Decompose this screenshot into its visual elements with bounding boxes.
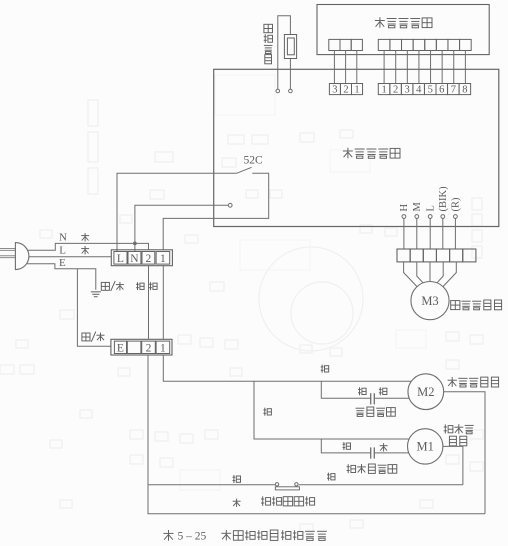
wire: terminal 1 down, red run to M2 [163,355,411,381]
svg-text:52C: 52C [244,155,264,167]
connector J1 squares (3) on photoreceptor board [329,39,340,50]
label 白 (white) [136,282,144,290]
label 黄/绿 (yellow/green) lower [82,333,90,341]
thermistor wire loop [278,16,291,89]
wire: plug L (brown) to terminal block [29,256,111,258]
svg-text:2: 2 [146,253,152,265]
svg-text:L: L [426,205,437,211]
wire: M2 return to brown run [444,392,485,514]
label 黑 right of capacitor [380,443,388,451]
label 过载保护器 [261,496,271,506]
wire: plug E to ground + lower block [27,264,96,290]
label 受光电路板 [375,17,385,28]
label 红 (red) on branch [263,408,271,416]
mains plug body [15,243,29,270]
svg-text:2: 2 [393,85,398,96]
label 风机电容 [356,408,365,416]
svg-text:N: N [59,232,67,244]
wire: terminal 2 down then brown run to M2 return [148,355,485,514]
svg-text:E: E [117,343,124,355]
wire: capacitor to M2 [375,397,410,399]
label 控制电路板 [343,148,353,159]
svg-text:1: 1 [381,85,386,96]
terminal block TB1 (L N 2 1) outer [111,250,172,266]
svg-text:M: M [412,202,423,212]
label 红 left of capacitor [343,442,351,450]
wires J1 to connector 3-2-1 [333,51,335,84]
connector CN 3-2-1 [329,84,340,95]
board: control circuit board (控制电路板) [214,69,499,226]
junction dot on N wire [133,242,136,245]
capacitor C-fan (风机电容) plates [370,393,372,404]
svg-text:1: 1 [160,343,166,355]
wire: terminal 2 down to outdoor block [148,266,150,340]
svg-text:3: 3 [332,85,337,96]
label 蓝 (blue) [81,233,89,241]
svg-text:L: L [117,253,124,265]
svg-text:E: E [59,257,66,269]
label 白 left [233,475,241,483]
label 红 (red) [149,282,157,290]
label 白 right [327,473,335,481]
svg-text:M2: M2 [417,385,434,399]
label 红 (red) top run [321,365,329,373]
capacitor C-comp (压缩机电容) plates [370,447,372,458]
label 黄/绿 (yellow/green) upper [101,282,109,290]
terminal block TB2 (E - 2 1) outer [111,339,172,355]
wire: white run right of protector [299,484,463,486]
wire: E branch down to outdoor terminal E [77,269,111,346]
board: photoreceptor circuit board (受光电路板) [317,5,489,55]
thermistor RT (热敏电阻) label [264,24,273,32]
wire: 52C right contact to terminal 1 [163,173,269,250]
svg-text:8: 8 [462,85,467,96]
wires J2 to connector 1-8 [383,51,385,84]
svg-text:1: 1 [160,253,166,265]
thermistor resistor body [284,35,296,59]
wire: terminal 1 down to outdoor block [162,266,164,340]
plug prong upper [0,248,15,250]
label 棕 (brown) [233,499,241,507]
wire: N junction to terminal 2 [135,243,149,249]
motor speed terminals H M L (BIK) (R) open circles [402,215,406,219]
terminal cells L N 2 1 [114,252,127,265]
relay coil terminal node (open circle) [228,203,232,207]
plug prong lower [0,256,15,258]
svg-text:5 – 25: 5 – 25 [178,531,207,543]
svg-text:(BIK): (BIK) [438,186,449,212]
svg-text:6: 6 [439,85,444,96]
wire: N junction up to coil terminal [135,205,228,243]
motor M3 (cross-flow fan motor) [411,282,449,320]
svg-text:1: 1 [354,85,359,96]
overload protector (过载保护器) symbol [275,483,278,486]
thermistor terminal pins [276,89,280,93]
connector CN 1-8 [378,84,390,95]
wires: speed terminals down to connector [403,218,405,249]
label 棕 (brown) [81,246,89,254]
svg-text:H: H [399,204,410,212]
wire: red branch down to M1 [254,381,409,439]
svg-text:M3: M3 [421,294,438,308]
connector J2 squares (8) on photoreceptor board [378,39,390,50]
svg-text:2: 2 [343,85,348,96]
wire: capacitor to M1 [375,452,409,454]
wire: M1 return down to white run [443,446,463,484]
label 轴流电动机 [448,377,457,387]
caption 图5-25 分体壁挂空调器接线 [163,530,173,541]
wire: N junction down into terminal N [134,243,136,251]
ground symbol [91,291,101,293]
wire: white run left of protector [148,484,275,486]
label 压缩电 [444,424,453,433]
label 动机 [449,436,456,446]
svg-text:M1: M1 [417,440,434,454]
svg-text:4: 4 [416,85,422,96]
52C switch blade [237,167,252,173]
svg-text:(R): (R) [451,197,462,212]
svg-text:N: N [130,253,139,265]
wire: M2 capacitor branch [321,381,370,398]
motor M1 (compressor motor) [408,429,443,464]
label 白 left of capacitor [358,387,366,395]
svg-text:L: L [59,244,66,256]
label 贯流电动机 [451,301,460,310]
ghost bleed-through marks (decorative scan artifacts) [0,100,483,532]
svg-text:3: 3 [405,85,410,96]
svg-text:5: 5 [428,85,433,96]
wire: plug N (blue) to junction [28,243,135,250]
wire: terminal L up to 52C fixed contact [117,173,237,251]
svg-text:2: 2 [146,343,152,355]
svg-text:7: 7 [451,85,456,96]
terminal cells E,blank,2,1 [114,341,126,353]
connector CN-M3 (6 ways) [397,249,410,262]
label 白 right of capacitor [379,387,387,395]
wire: M1 capacitor branch [321,439,370,453]
motor M2 (axial-flow fan motor) [408,374,444,410]
wires: connector fan-in to M3 [404,262,417,287]
label 压缩机电容 [347,464,356,473]
